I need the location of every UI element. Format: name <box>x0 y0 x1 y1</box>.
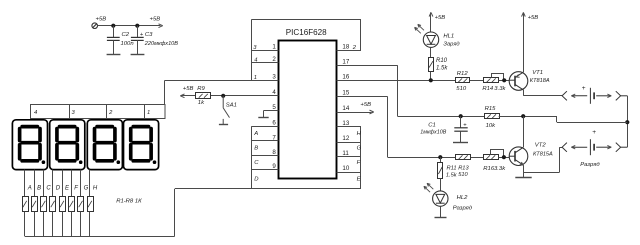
svg-text:1.5k: 1.5k <box>446 173 458 179</box>
wire R15 to jog <box>499 116 557 118</box>
wire discharge row <box>388 157 456 159</box>
digit strip divider 3 <box>144 105 146 119</box>
svg-text:11: 11 <box>342 150 349 157</box>
node G box <box>337 142 361 144</box>
svg-text:КТ815А: КТ815А <box>533 151 553 157</box>
svg-text:4: 4 <box>254 57 257 63</box>
arrow +5V at VT1 emitter <box>523 12 525 72</box>
svg-text:510: 510 <box>456 86 467 92</box>
wire R2 to bottom bus <box>34 212 36 237</box>
svg-text:4: 4 <box>34 110 37 116</box>
svg-text:A: A <box>253 131 258 137</box>
junction C2 node <box>111 24 115 28</box>
connector XS1 +5V input <box>92 23 98 29</box>
junction VT1 base node <box>502 78 506 82</box>
digit common strip box <box>31 105 166 119</box>
wire R1 to bottom bus <box>24 212 26 237</box>
svg-text:3: 3 <box>272 74 276 81</box>
svg-text:C1: C1 <box>428 123 436 129</box>
wire R7 to bottom bus <box>80 212 82 237</box>
ground below C2 <box>107 40 121 54</box>
resistor R10 <box>429 58 434 72</box>
wire right vertical to pin18 <box>360 19 362 50</box>
svg-text:Разряд: Разряд <box>580 162 600 168</box>
wire R11 to HL2 <box>440 178 442 190</box>
wire +5V rail <box>98 25 161 27</box>
LED HL2 <box>424 183 448 206</box>
svg-text:Заряд: Заряд <box>443 42 460 48</box>
wire R6 to bottom bus <box>71 212 73 237</box>
display HG4 seven-segment digit 1 <box>124 120 159 170</box>
svg-text:B: B <box>254 145 258 151</box>
svg-text:+: + <box>582 85 586 92</box>
svg-text:E: E <box>357 177 361 183</box>
wire pin 5 <box>263 110 278 112</box>
wire right cells edge <box>360 127 362 189</box>
arrow +5V above HL1 <box>430 12 432 32</box>
node D box <box>252 169 279 171</box>
svg-text:G: G <box>357 145 362 151</box>
node H box <box>337 126 361 128</box>
svg-text:+5В: +5В <box>360 102 371 108</box>
wire R14 to VT1 base <box>499 80 510 82</box>
svg-text:R13: R13 <box>458 166 469 172</box>
wire R11 top lead <box>440 157 442 162</box>
junction C1 node <box>459 114 463 118</box>
wire jog down <box>556 116 558 122</box>
wire sense row left <box>398 116 485 118</box>
node E box <box>337 172 361 174</box>
junction R11 node <box>438 155 442 159</box>
ground at VT2 emitter <box>515 172 531 177</box>
wire C2 top lead <box>113 26 115 38</box>
svg-text:G: G <box>84 186 89 192</box>
resistor R8 <box>88 197 94 212</box>
wire R16 trimmer tap <box>491 150 504 158</box>
wire display segment B to R2 <box>34 170 36 197</box>
junction SA1 node <box>221 94 225 98</box>
ground below SA1 <box>219 123 228 125</box>
wire battery 2 left riser <box>559 147 561 172</box>
wire VT2 emitter down <box>523 165 525 172</box>
svg-text:КТ818А: КТ818А <box>530 78 550 84</box>
wire pin 17 vertical <box>397 65 399 116</box>
transistor VT2 KT815A NPN <box>509 147 528 166</box>
svg-text:4: 4 <box>272 89 276 96</box>
junction VT2 collector node <box>521 114 525 118</box>
svg-text:18: 18 <box>342 43 349 50</box>
node A box <box>252 126 279 128</box>
wire R14 trimmer tap <box>492 74 504 81</box>
svg-text:H: H <box>357 131 362 137</box>
wire VT2 collector up <box>523 116 525 147</box>
wire pin 4 from SA1 <box>211 95 279 97</box>
capacitor C3 electrolytic <box>131 37 144 40</box>
wire jog to battery node <box>557 122 627 124</box>
junction R10-pin16 node <box>429 78 433 82</box>
svg-text:12: 12 <box>342 135 349 142</box>
svg-text:510: 510 <box>458 172 468 178</box>
capacitor C1 electrolytic <box>454 128 467 131</box>
svg-text:220мкфх10В: 220мкфх10В <box>144 41 179 47</box>
wire display segment G to R7 <box>80 170 82 197</box>
wire pin 16 row <box>337 80 456 82</box>
svg-text:VT1: VT1 <box>532 70 543 76</box>
resistor R14 <box>484 78 499 83</box>
display HG3 seven-segment digit 2 <box>87 120 122 170</box>
svg-text:10: 10 <box>342 165 349 172</box>
wire R3 to bottom bus <box>43 212 45 237</box>
arrow +5V at R9 <box>181 95 196 97</box>
wire R8 to bottom bus <box>89 212 91 237</box>
resistor R5 <box>60 197 66 212</box>
resistor R6 <box>69 197 75 212</box>
svg-text:R14: R14 <box>482 86 494 92</box>
svg-text:R12: R12 <box>457 71 469 77</box>
junction battery right node <box>625 120 629 124</box>
wire bottom edge segment bus <box>175 188 361 190</box>
resistor R3 <box>41 197 47 212</box>
resistor R11 <box>438 163 443 179</box>
svg-text:R9: R9 <box>197 86 205 92</box>
resistor R9 <box>196 93 211 99</box>
display HG1 seven-segment digit 4 <box>12 120 47 170</box>
wire display segment A to R1 <box>24 170 26 197</box>
svg-text:1: 1 <box>147 110 150 116</box>
node B box <box>252 140 279 142</box>
wire VT1 collector down <box>523 90 525 96</box>
svg-text:3.3k: 3.3k <box>494 86 506 92</box>
svg-text:+5В: +5В <box>96 16 107 22</box>
wire pin 17 <box>337 65 398 67</box>
resistor R15 <box>485 114 500 119</box>
svg-text:+: + <box>592 129 596 136</box>
svg-text:C: C <box>46 186 51 192</box>
wire R5 to bottom bus <box>62 212 64 237</box>
wire pin 15 vertical <box>387 97 389 158</box>
junction C3 node <box>135 24 139 28</box>
svg-text:+: + <box>463 122 467 128</box>
svg-text:1мкфх10В: 1мкфх10В <box>420 130 446 136</box>
wire R10 to node <box>430 72 432 81</box>
svg-text:15: 15 <box>342 90 349 97</box>
wire battery 1 right drop <box>627 96 629 147</box>
wire HL1 to R10 <box>430 47 432 57</box>
svg-text:3.3k: 3.3k <box>494 166 506 172</box>
svg-text:A: A <box>27 186 32 192</box>
wire bottom bus riser <box>174 189 176 236</box>
svg-text:1: 1 <box>272 43 276 50</box>
svg-text:+5В: +5В <box>435 15 446 21</box>
ground below C3 <box>131 40 145 54</box>
wire display segment D to R4 <box>52 170 54 197</box>
svg-text:1k: 1k <box>198 100 205 106</box>
svg-text:1.5k: 1.5k <box>436 66 448 72</box>
svg-text:F: F <box>74 186 78 192</box>
svg-text:1: 1 <box>254 75 257 81</box>
wire display segment C to R3 <box>43 170 45 197</box>
digit strip divider 2 <box>106 105 108 119</box>
wire strip to pin3 <box>164 80 166 105</box>
junction VT2 base node <box>502 155 506 159</box>
svg-text:+5В: +5В <box>528 15 539 21</box>
battery GB2 discharge <box>562 139 627 155</box>
svg-text:8: 8 <box>272 149 276 156</box>
svg-text:7: 7 <box>272 134 276 141</box>
svg-text:R10: R10 <box>436 58 448 64</box>
resistor R12 <box>456 78 470 83</box>
wire pin 15 <box>337 96 388 98</box>
wire display segment F to R6 <box>71 170 73 197</box>
digit strip divider 1 <box>69 105 71 119</box>
svg-text:HL1: HL1 <box>443 33 454 39</box>
svg-text:F: F <box>357 160 361 166</box>
wire pin 18 <box>337 50 361 52</box>
svg-text:6: 6 <box>272 120 276 127</box>
display HG2 seven-segment digit 3 <box>50 120 85 170</box>
svg-text:SA1: SA1 <box>226 103 237 109</box>
ground at pin 5 <box>258 111 268 118</box>
svg-text:D: D <box>254 177 259 183</box>
node C box <box>252 155 279 157</box>
resistor R4 <box>50 197 56 212</box>
wire pin 3 to display bus <box>165 80 278 82</box>
resistor R7 <box>78 197 84 212</box>
wire bottom bus rail <box>25 236 175 238</box>
ground below C1 <box>453 131 468 142</box>
svg-text:13: 13 <box>342 120 349 127</box>
svg-text:+5В: +5В <box>150 16 161 22</box>
switch SA1 <box>223 96 229 125</box>
arrow +5V at pin 14 <box>337 112 372 114</box>
wire pin 1 <box>252 50 279 52</box>
battery GB1 charge <box>562 88 627 104</box>
resistor R16 <box>484 155 499 160</box>
svg-text:HL2: HL2 <box>457 195 469 201</box>
wire C1 top lead <box>460 116 462 127</box>
svg-text:+5В: +5В <box>183 86 194 92</box>
wire left bus vertical <box>251 19 253 80</box>
capacitor C2 <box>107 37 120 40</box>
wire VT2 emitter to battery 2 <box>523 172 559 174</box>
svg-text:14: 14 <box>342 105 349 112</box>
transistor VT1 KT818A PNP <box>509 72 528 91</box>
svg-text:100n: 100n <box>121 41 135 47</box>
svg-text:VT2: VT2 <box>535 142 547 148</box>
svg-text:10k: 10k <box>486 123 497 129</box>
wire R16 to VT2 base <box>498 157 509 159</box>
resistor R13 <box>456 155 471 160</box>
wire pin 2 <box>252 62 279 64</box>
op-amp U1 PIC16F628 body <box>279 41 337 179</box>
svg-text:PIC16F628: PIC16F628 <box>286 28 327 37</box>
svg-text:D: D <box>56 186 61 192</box>
svg-text:R1-R8 1К: R1-R8 1К <box>116 199 142 205</box>
svg-text:16: 16 <box>342 73 349 80</box>
svg-text:R15: R15 <box>485 106 497 112</box>
wire C3 top lead <box>137 26 139 38</box>
wire R13 to R16 <box>471 157 483 159</box>
svg-text:Разряд: Разряд <box>453 206 473 212</box>
svg-text:17: 17 <box>342 58 349 65</box>
svg-text:5: 5 <box>272 104 276 111</box>
svg-text:H: H <box>93 186 98 192</box>
resistor R2 <box>32 197 38 212</box>
wire R4 to bottom bus <box>52 212 54 237</box>
svg-text:C2: C2 <box>122 32 130 38</box>
svg-text:R11: R11 <box>447 166 457 172</box>
arrow +5V rail <box>158 24 162 26</box>
wire display segment H to R8 <box>89 170 91 197</box>
svg-text:C: C <box>254 160 259 166</box>
wire display segment E to R5 <box>62 170 64 197</box>
svg-text:9: 9 <box>272 163 276 170</box>
ground below HL2 <box>435 206 447 217</box>
wire R12 to R14 <box>470 80 484 82</box>
svg-text:B: B <box>37 186 41 192</box>
LED HL1 <box>415 24 439 47</box>
resistor R1 <box>23 197 29 212</box>
wire riser to battery 2 <box>560 147 563 149</box>
wire VT1 collector to battery 1 <box>523 95 562 97</box>
node F box <box>337 156 361 158</box>
wire top rail pin1-to-pin18 loop <box>252 19 362 21</box>
wire left cells edge <box>251 126 253 189</box>
svg-text:2: 2 <box>272 56 276 63</box>
svg-text:+ C3: + C3 <box>140 32 153 38</box>
